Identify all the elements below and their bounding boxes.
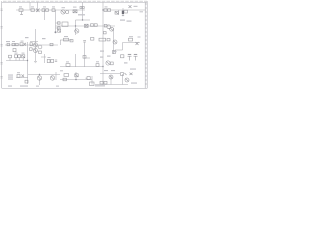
wire vertical left rail: [27, 42, 29, 84]
wire bend: [60, 40, 62, 45]
capacitor C14: [86, 77, 91, 80]
resistor R37: [39, 51, 42, 53]
label text: [130, 69, 136, 70]
wire horizontal right: [123, 42, 141, 44]
ground: [122, 15, 124, 16]
wire horizontal: [16, 77, 28, 79]
wire vertical: [75, 72, 77, 80]
wire vertical: [35, 29, 37, 61]
resistor R29: [17, 74, 20, 77]
label text: [96, 61, 99, 62]
label text block: [8, 75, 13, 76]
resistor R8: [108, 9, 111, 12]
transistor Q15: [125, 78, 129, 82]
wire vertical: [39, 79, 41, 85]
label text: [100, 57, 104, 58]
capacitor C5: [30, 43, 32, 46]
resistor R33: [63, 78, 66, 81]
connector J1: [90, 82, 95, 86]
transistor Q10: [128, 54, 132, 60]
junction dot: [102, 66, 103, 67]
wire bend: [115, 49, 123, 51]
capacitor C1: [36, 9, 40, 13]
transistor Q8: [113, 40, 117, 44]
label text: [52, 6, 55, 7]
wire horizontal bottom bus: [95, 84, 128, 86]
resistor R26: [66, 64, 70, 67]
resistor R18: [70, 40, 73, 42]
wire vertical: [37, 2, 39, 12]
resistor R16: [50, 43, 53, 45]
resistor R9: [85, 24, 89, 27]
resistor R34: [100, 81, 103, 84]
wire stub: [41, 56, 46, 58]
label text: [105, 6, 108, 7]
resistor R32: [75, 74, 78, 77]
label text: [43, 6, 46, 7]
label text: [36, 86, 39, 87]
label text: [19, 6, 22, 7]
wire vertical: [44, 54, 46, 63]
capacitor C15: [121, 73, 127, 76]
label text: [21, 41, 24, 42]
resistor R21: [129, 38, 133, 41]
resistor R14: [15, 43, 18, 45]
resistor R3: [42, 9, 45, 12]
capacitor C16: [130, 73, 133, 75]
wire vertical: [75, 20, 77, 35]
capacitor C3: [122, 10, 128, 14]
transistor Q11: [134, 54, 138, 60]
label text block: [8, 77, 13, 78]
capacitor C13: [22, 74, 25, 77]
label text: [15, 53, 18, 54]
wire vertical: [75, 54, 77, 67]
wire top rail right segment: [103, 9, 146, 11]
label text: [78, 14, 85, 15]
label text: [140, 11, 144, 12]
junction dot: [27, 60, 28, 61]
transistor Q1: [61, 10, 65, 14]
transistor Q6: [33, 43, 37, 47]
wire vertical: [110, 75, 112, 85]
wire vertical: [118, 10, 120, 15]
transistor Q7: [34, 49, 38, 53]
diode D1: [115, 12, 118, 15]
wire top rail left segment: [16, 9, 85, 11]
label text: [6, 41, 10, 42]
resistor R4: [46, 9, 49, 12]
wire stub: [22, 58, 24, 61]
label text: [124, 62, 128, 63]
resistor R22: [9, 55, 12, 58]
capacitor C19: [58, 27, 61, 29]
border frame top: [2, 1, 147, 2]
wire horizontal: [6, 60, 28, 62]
resistor R7: [104, 9, 107, 12]
transistor Q9: [106, 61, 110, 65]
diode D2: [113, 51, 116, 54]
transistor Q12: [37, 76, 41, 80]
resistor R31: [64, 74, 69, 77]
junction dot: [75, 25, 76, 26]
resistor R15: [20, 43, 26, 46]
label text: [120, 20, 125, 21]
label text: [100, 51, 104, 52]
wire vertical: [91, 76, 93, 85]
resistor R1: [19, 9, 23, 12]
label text: [22, 53, 25, 54]
capacitor C20: [58, 29, 61, 32]
wire vertical: [122, 43, 124, 51]
wire vertical: [82, 2, 84, 20]
resistor R23: [15, 55, 18, 58]
capacitor C12: [121, 55, 124, 58]
wire horizontal: [60, 66, 103, 68]
resistor R30: [25, 80, 28, 83]
capacitor C2: [80, 7, 84, 9]
wire horizontal: [30, 41, 38, 43]
junction dot: [55, 31, 57, 33]
relay box K1: [62, 22, 68, 26]
label text: [12, 41, 15, 42]
label text: [56, 86, 59, 87]
transistor Q13: [50, 76, 54, 80]
label text: [131, 83, 137, 84]
resistor R11: [94, 24, 97, 27]
resistor R6: [73, 10, 77, 13]
label text: [138, 37, 141, 38]
transistor Q2: [66, 10, 69, 13]
wire long vertical center: [102, 2, 104, 85]
label text: [73, 7, 77, 8]
ground: [34, 62, 37, 63]
label text: [62, 7, 66, 8]
border frame right ladder: [145, 1, 147, 88]
wire horizontal: [60, 39, 72, 41]
capacitor C17: [30, 48, 33, 51]
resistor R39: [104, 32, 107, 34]
wire stub: [85, 57, 91, 59]
wire horizontal: [56, 25, 116, 27]
resistor R5: [52, 9, 55, 12]
capacitor C18: [58, 22, 61, 24]
junction dot: [75, 79, 77, 81]
wire horizontal mid-left row: [5, 44, 58, 46]
label text: [127, 21, 132, 22]
capacitor C10: [51, 59, 54, 62]
resistor R17: [64, 38, 69, 41]
label text: [31, 6, 34, 7]
resistor R27: [96, 64, 99, 67]
label text: [64, 36, 68, 37]
label text: [48, 57, 51, 58]
resistor R35: [104, 81, 107, 84]
resistor R2: [31, 9, 34, 12]
junction dot: [82, 19, 83, 20]
capacitor C11: [55, 60, 57, 62]
ground: [20, 12, 23, 15]
capacitor C9: [47, 59, 50, 62]
wire stub: [9, 58, 11, 61]
resistor R20 wide: [99, 38, 106, 41]
label text block: [8, 79, 13, 80]
capacitor C8: [136, 42, 139, 45]
label text: [66, 61, 69, 62]
label text: [25, 37, 29, 38]
border frame left: [1, 1, 3, 88]
resistor R24: [18, 55, 21, 58]
resistor R38: [104, 24, 107, 27]
wire vertical: [122, 74, 124, 85]
capacitor C21: [83, 56, 86, 59]
resistor R12: [7, 43, 10, 45]
transistor Q16: [38, 45, 42, 49]
label text: [104, 70, 108, 71]
wire horizontal: [76, 19, 91, 21]
wire vertical: [113, 28, 115, 54]
transistor Q3: [75, 29, 79, 33]
border frame bottom: [2, 87, 147, 89]
resistor R10: [91, 24, 94, 27]
label text: [111, 70, 115, 71]
wire vertical: [44, 10, 46, 20]
label text: [95, 85, 105, 86]
wire stub: [18, 58, 20, 61]
label text: [17, 72, 20, 73]
wire vertical: [122, 8, 124, 16]
wire stub: [15, 58, 17, 61]
wire vertical with stubs: [56, 10, 61, 33]
transistor Q14: [109, 75, 113, 79]
label text: [107, 56, 111, 57]
capacitor C7: [83, 41, 86, 43]
label text: [20, 86, 28, 87]
label text: [8, 86, 12, 87]
resistor R28: [110, 62, 113, 65]
resistor R25: [22, 55, 25, 58]
label text: [113, 51, 117, 52]
wire horizontal: [28, 74, 60, 76]
transistor Q4: [107, 25, 111, 29]
wire vertical feed left: [29, 2, 31, 10]
label text: [42, 38, 46, 39]
capacitor C6: [13, 49, 16, 52]
wire cluster stub: [32, 48, 36, 50]
resistor R36: [107, 39, 110, 41]
transistor Q5: [110, 27, 114, 31]
wire horizontal: [100, 73, 120, 75]
junction dot: [102, 9, 103, 10]
wire horizontal: [60, 79, 92, 81]
wire vertical: [55, 72, 57, 80]
wire vertical: [84, 42, 86, 67]
label text: [60, 70, 63, 71]
label C4 value: [134, 6, 138, 7]
label text: [129, 36, 133, 37]
capacitor C4: [129, 5, 132, 8]
resistor R19: [91, 38, 94, 41]
resistor R13: [12, 43, 15, 45]
junction dot: [39, 74, 40, 75]
